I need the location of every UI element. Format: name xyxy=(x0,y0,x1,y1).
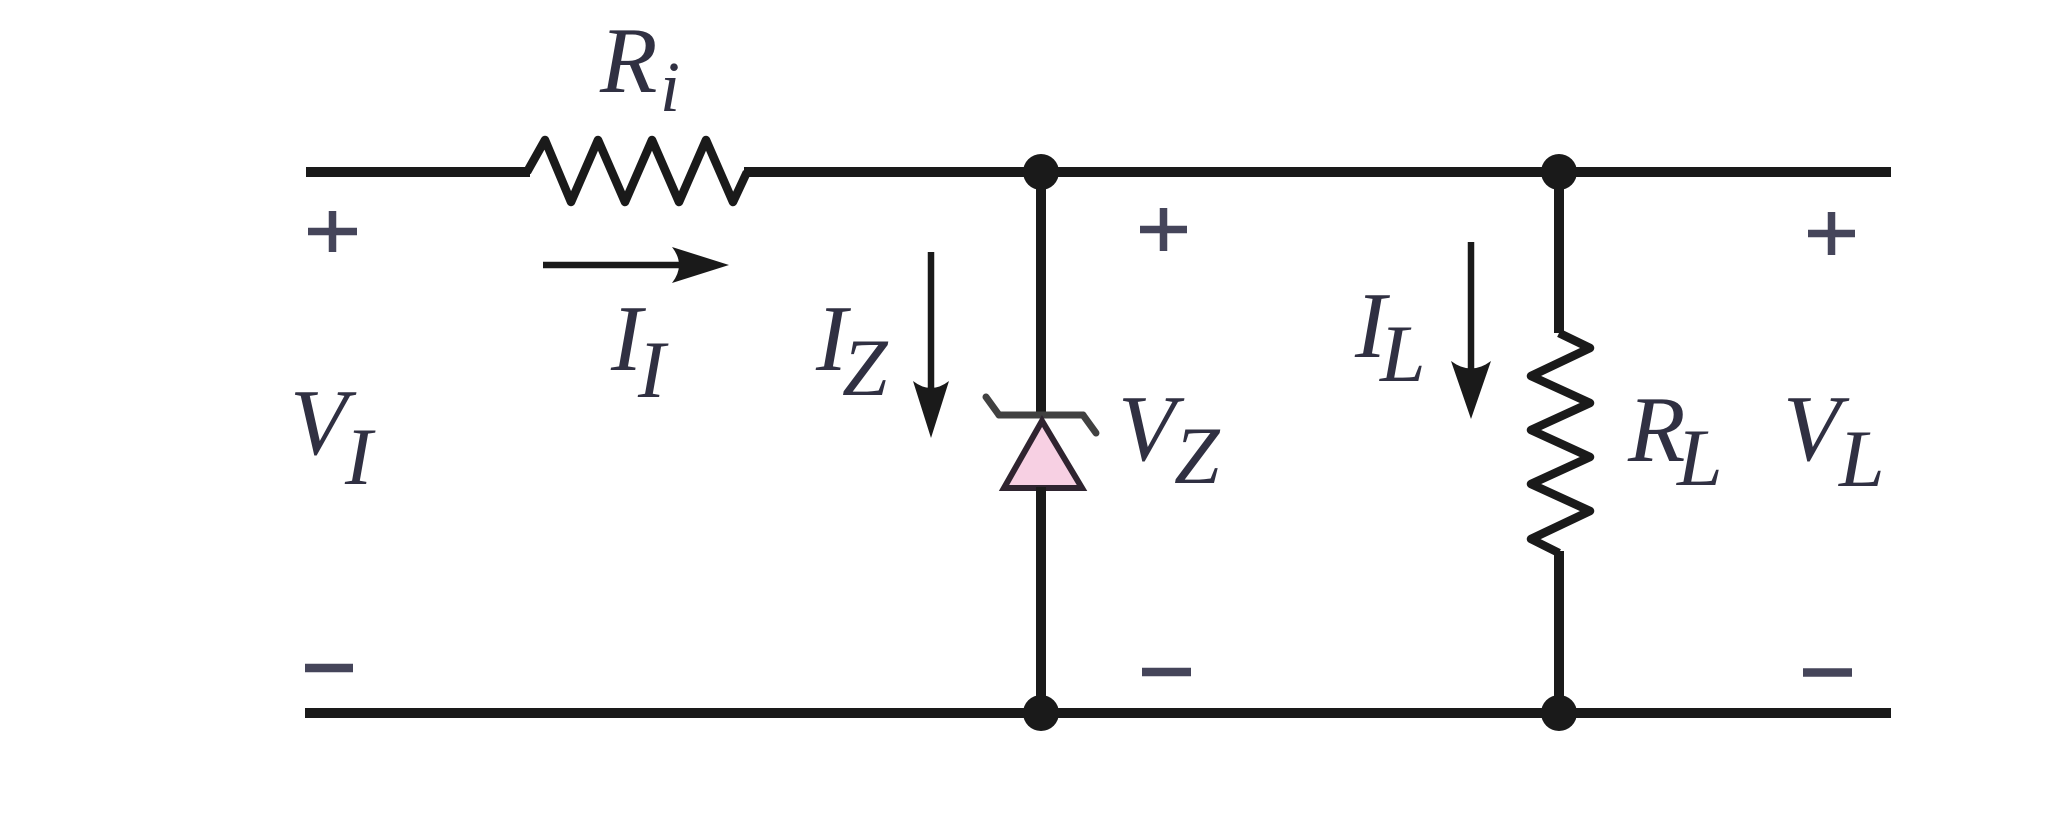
wire: bottom rail xyxy=(305,708,1891,718)
label minus (left, VI) xyxy=(305,664,353,673)
wire: zener branch lower xyxy=(1036,487,1046,713)
zener diode DZ: cathode bar with bent ticks xyxy=(986,397,1096,433)
zener diode DZ: anode triangle (pink) xyxy=(1004,421,1082,488)
current arrow II (input current, pointing right) xyxy=(543,247,729,283)
wire: top rail left segment (input to Ri) xyxy=(306,167,530,177)
wire: zener branch upper xyxy=(1036,172,1046,418)
svg-text:I: I xyxy=(344,411,376,502)
svg-text:R: R xyxy=(599,9,657,113)
svg-text:L: L xyxy=(1379,308,1426,399)
node: junction top of zener branch xyxy=(1023,154,1059,190)
label minus (middle, VZ) xyxy=(1142,668,1191,677)
svg-text:Z: Z xyxy=(1174,410,1221,501)
svg-text:i: i xyxy=(660,47,680,127)
label minus (right, VL) xyxy=(1803,668,1852,677)
svg-text:I: I xyxy=(637,324,669,415)
wire: load branch lower xyxy=(1554,551,1564,713)
svg-text:L: L xyxy=(1676,412,1723,503)
wire: top rail from Ri to right end xyxy=(744,167,1891,177)
svg-text:L: L xyxy=(1838,413,1885,504)
node: junction bottom of zener branch xyxy=(1023,695,1059,731)
svg-text:Z: Z xyxy=(842,322,889,413)
label plus (right, VL) xyxy=(1808,212,1855,255)
node: junction bottom of load branch xyxy=(1541,695,1577,731)
resistor RL (vertical zigzag) xyxy=(1531,333,1590,553)
label plus (left, VI) xyxy=(308,211,357,252)
resistor Ri (horizontal zigzag) xyxy=(527,140,747,202)
current arrow IZ (zener current, pointing down) xyxy=(913,252,949,438)
node: junction top of load branch xyxy=(1541,154,1577,190)
label plus (middle, VZ) xyxy=(1140,208,1187,251)
current arrow IL (load current, pointing down) xyxy=(1451,242,1491,419)
wire: load branch upper xyxy=(1554,172,1564,333)
